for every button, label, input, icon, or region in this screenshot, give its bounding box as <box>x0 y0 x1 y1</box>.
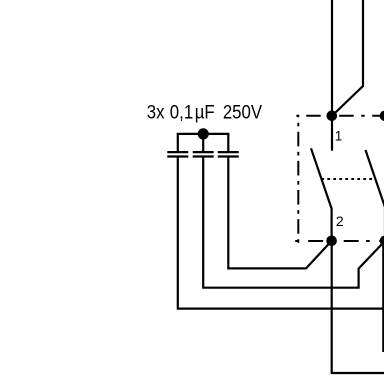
mechanical coupling link (dotted) <box>321 178 375 180</box>
node dot 4 (switch S2 bottom terminal, clipped) <box>380 236 384 247</box>
wire C2 to switch S2 bottom terminal <box>203 157 384 288</box>
svg-text:1: 1 <box>335 128 343 143</box>
node dot 3 (switch S2 top terminal, clipped) <box>380 111 384 122</box>
enclosure left edge (dash-dot) <box>297 115 299 243</box>
wire feed right vertical with diagonal into node 1 <box>332 0 363 116</box>
capacitor bus wire <box>177 133 230 135</box>
node A (bus junction dot) <box>198 128 209 139</box>
node dot 1 (switch S1 top terminal) <box>327 111 338 122</box>
wire S1 bottom terminal down and right <box>332 241 384 373</box>
capacitor C1 top lead <box>177 134 179 151</box>
capacitor C2 plates <box>193 151 214 153</box>
enclosure top edge (dash-dot) <box>296 115 384 117</box>
wire C1 to right edge (lowest run) <box>178 157 384 309</box>
enclosure bottom edge (dash-dot) <box>295 240 384 242</box>
capacitor C2 top lead <box>202 134 204 151</box>
capacitor C3 top lead <box>227 134 229 151</box>
capacitor C3 plates <box>218 151 239 153</box>
wire C3 to switch S1 bottom terminal <box>228 157 331 269</box>
capacitor C1 plates <box>167 151 188 153</box>
switch S2 blade (clipped at right edge) <box>366 150 384 210</box>
switch S1 blade <box>311 148 332 208</box>
svg-text:3x0,1µF250V: 3x0,1µF250V <box>147 101 263 122</box>
node dot 2 (switch S1 bottom terminal) <box>326 236 337 247</box>
switch S1 bottom stub (pin 2) <box>331 208 333 242</box>
wire feed left vertical (top to switch S1 pin 1 stub) <box>331 0 333 151</box>
wire S2 bottom terminal down (right edge) <box>382 241 384 352</box>
svg-text:2: 2 <box>336 213 344 229</box>
